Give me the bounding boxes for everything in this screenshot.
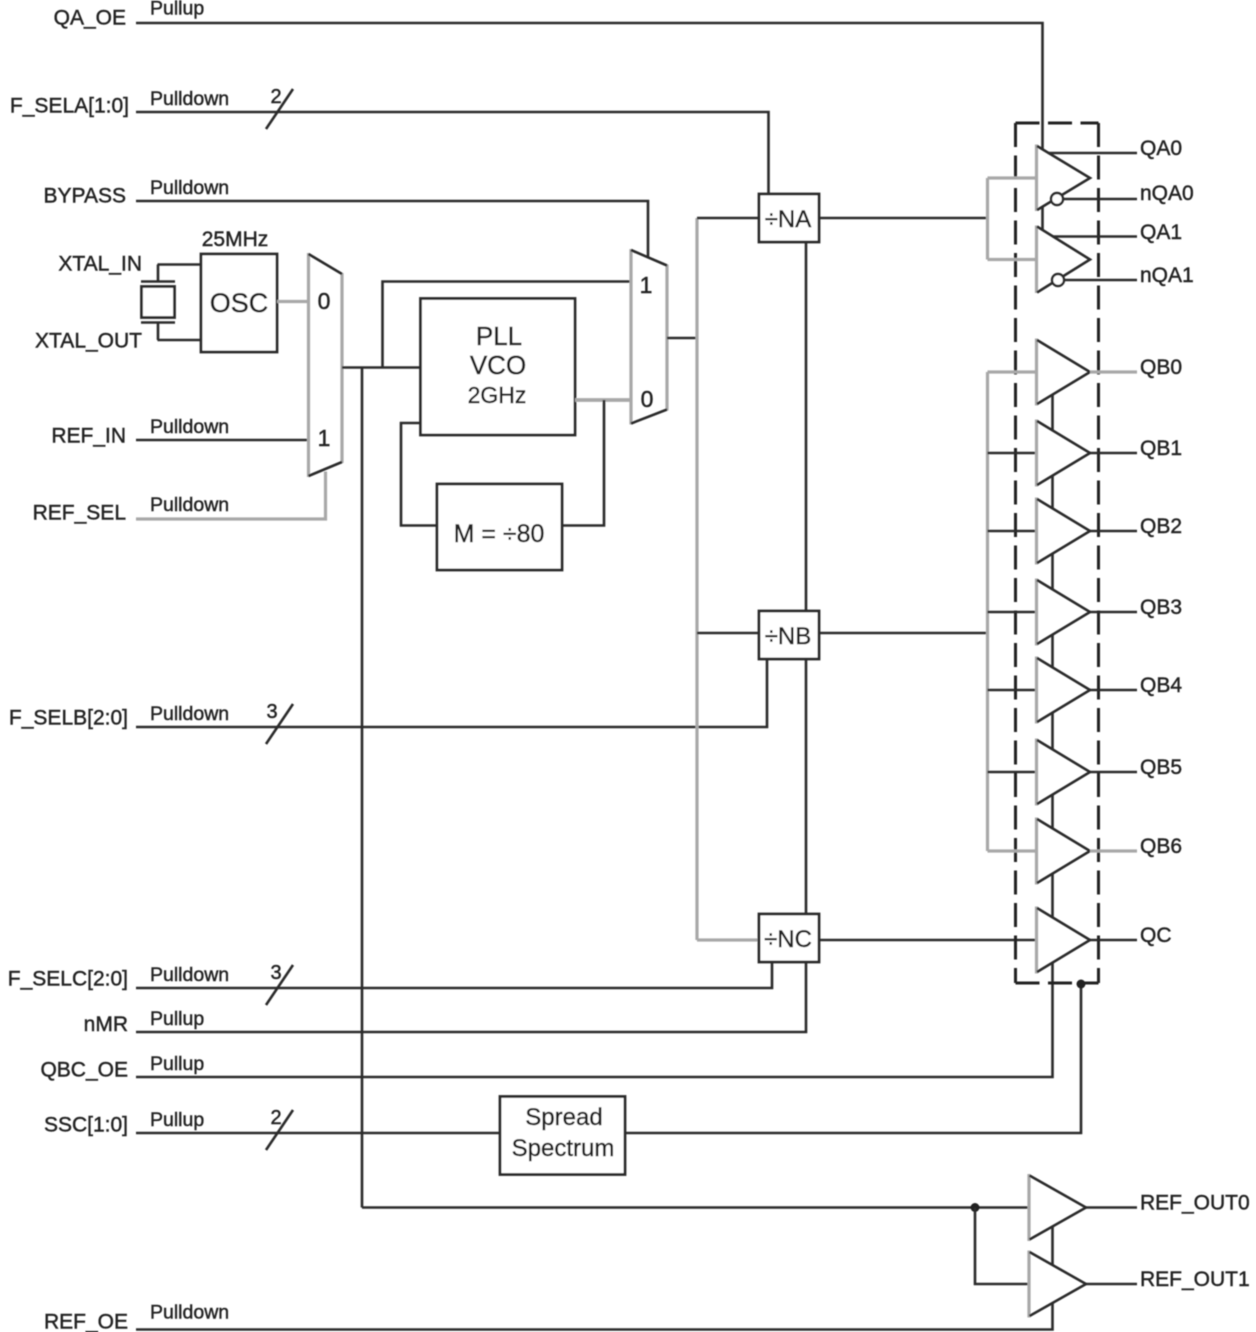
svg-text:÷NA: ÷NA — [765, 206, 812, 233]
svg-text:Pulldown: Pulldown — [150, 416, 229, 438]
svg-text:nMR: nMR — [84, 1013, 128, 1036]
svg-text:XTAL_OUT: XTAL_OUT — [35, 330, 142, 353]
svg-text:QB0: QB0 — [1140, 356, 1182, 379]
svg-text:3: 3 — [270, 962, 281, 984]
svg-text:QB4: QB4 — [1140, 674, 1182, 697]
svg-text:BYPASS: BYPASS — [44, 185, 126, 208]
svg-text:÷NB: ÷NB — [765, 623, 812, 650]
svg-text:F_SELA[1:0]: F_SELA[1:0] — [10, 95, 129, 118]
svg-text:2GHz: 2GHz — [468, 382, 527, 408]
svg-text:M = ÷80: M = ÷80 — [454, 520, 545, 548]
svg-text:25MHz: 25MHz — [202, 228, 269, 251]
svg-text:VCO: VCO — [470, 350, 526, 380]
svg-text:QB3: QB3 — [1140, 596, 1182, 619]
svg-text:F_SELB[2:0]: F_SELB[2:0] — [9, 707, 128, 730]
svg-text:REF_OUT0: REF_OUT0 — [1140, 1192, 1250, 1215]
svg-text:Pulldown: Pulldown — [150, 88, 229, 110]
svg-text:REF_IN: REF_IN — [51, 425, 126, 448]
svg-text:REF_OUT1: REF_OUT1 — [1140, 1268, 1250, 1291]
svg-text:XTAL_IN: XTAL_IN — [58, 253, 142, 276]
svg-text:QBC_OE: QBC_OE — [40, 1059, 128, 1082]
svg-text:Pullup: Pullup — [150, 1109, 204, 1131]
svg-text:Pulldown: Pulldown — [150, 703, 229, 725]
svg-text:Spread: Spread — [525, 1104, 602, 1131]
svg-text:0: 0 — [641, 386, 654, 412]
svg-text:QA0: QA0 — [1140, 137, 1182, 160]
svg-text:QB6: QB6 — [1140, 835, 1182, 858]
svg-text:Pullup: Pullup — [150, 0, 204, 20]
svg-text:nQA1: nQA1 — [1140, 264, 1194, 287]
svg-text:QB1: QB1 — [1140, 437, 1182, 460]
svg-text:PLL: PLL — [476, 321, 522, 351]
svg-text:Pullup: Pullup — [150, 1053, 204, 1075]
svg-text:1: 1 — [640, 272, 653, 298]
svg-text:0: 0 — [318, 288, 331, 314]
svg-text:REF_OE: REF_OE — [44, 1311, 128, 1332]
svg-text:3: 3 — [266, 701, 277, 723]
svg-text:2: 2 — [270, 86, 281, 108]
svg-text:Pullup: Pullup — [150, 1008, 204, 1030]
svg-text:2: 2 — [270, 1107, 281, 1129]
svg-text:QA_OE: QA_OE — [54, 7, 126, 30]
svg-text:OSC: OSC — [210, 288, 269, 318]
svg-text:Pulldown: Pulldown — [150, 494, 229, 516]
svg-text:1: 1 — [318, 425, 331, 451]
svg-text:Pulldown: Pulldown — [150, 964, 229, 986]
svg-text:SSC[1:0]: SSC[1:0] — [44, 1114, 128, 1137]
svg-text:÷NC: ÷NC — [764, 926, 812, 953]
svg-text:QB5: QB5 — [1140, 756, 1182, 779]
svg-text:QB2: QB2 — [1140, 515, 1182, 538]
svg-text:Spectrum: Spectrum — [512, 1135, 615, 1162]
svg-text:nQA0: nQA0 — [1140, 182, 1194, 205]
svg-text:QC: QC — [1140, 924, 1172, 947]
svg-text:Pulldown: Pulldown — [150, 1302, 229, 1324]
svg-text:Pulldown: Pulldown — [150, 177, 229, 199]
svg-text:REF_SEL: REF_SEL — [33, 502, 126, 525]
svg-text:F_SELC[2:0]: F_SELC[2:0] — [8, 968, 128, 991]
svg-text:QA1: QA1 — [1140, 221, 1182, 244]
